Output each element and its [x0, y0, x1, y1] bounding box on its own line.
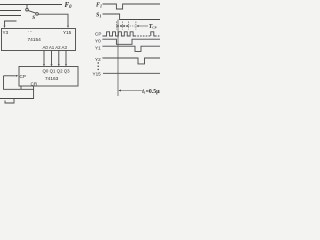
waveform Y1 — [102, 46, 160, 51]
svg-text:CR: CR — [31, 81, 38, 86]
waveform CP — [103, 32, 135, 36]
dashed marker t3 — [128, 22, 130, 30]
waveform Y0 — [102, 39, 160, 44]
svg-text:S: S — [32, 15, 35, 21]
switch S fixed contact — [26, 8, 29, 11]
delay annotation arrow — [119, 90, 142, 92]
time origin vertical line — [117, 20, 119, 97]
waveform F1 — [103, 4, 161, 9]
svg-text:CP: CP — [20, 74, 26, 79]
wire switch drop — [26, 5, 28, 9]
svg-text:Y0: Y0 — [95, 38, 101, 43]
svg-text:Y3: Y3 — [3, 30, 9, 35]
svg-text:Q0 Q1 Q2 Q3: Q0 Q1 Q2 Q3 — [43, 69, 71, 74]
svg-text:74163: 74163 — [45, 76, 59, 82]
dashed marker t2 — [122, 22, 124, 30]
svg-text:Y1: Y1 — [95, 45, 101, 50]
svg-text:F1: F1 — [96, 3, 102, 9]
svg-text:Y15: Y15 — [93, 71, 102, 76]
IC U2 74163 box — [19, 67, 78, 87]
wire stub lower — [0, 15, 21, 17]
waveform S1 — [103, 14, 161, 20]
svg-text:A0 A1 A2 A3: A0 A1 A2 A3 — [43, 45, 68, 50]
wire Q3 to A3 — [65, 51, 67, 65]
dashed marker t4 — [135, 22, 137, 30]
svg-text:Y2: Y2 — [95, 57, 101, 62]
dashed marker t1 — [115, 22, 117, 30]
wire F0 rail — [0, 4, 62, 6]
wire stub upper — [0, 10, 21, 12]
dashes between t3 t4 — [130, 25, 135, 27]
wire CP feed loop — [4, 76, 34, 90]
svg-text:S1: S1 — [96, 13, 101, 19]
svg-text:···: ··· — [28, 29, 33, 34]
svg-text:F0: F0 — [65, 1, 73, 10]
wire into decoder Y3 pin — [5, 21, 17, 26]
svg-text:TCP: TCP — [149, 24, 157, 30]
svg-text:Y15: Y15 — [63, 30, 72, 35]
dimension arrow pair 2 — [123, 25, 125, 27]
wire CR return — [0, 86, 34, 99]
wire CR return lower step — [5, 99, 14, 104]
dimension arrow pair 1 — [117, 25, 119, 27]
wire Q1 to A1 — [51, 51, 53, 65]
switch S pole contact — [36, 13, 39, 16]
vertical ellipsis — [98, 62, 99, 70]
svg-text:74154: 74154 — [28, 37, 42, 43]
leader line with left arrow to TCP label — [137, 25, 148, 27]
IC U1 74154 box — [2, 29, 76, 51]
svg-text:CP: CP — [95, 31, 101, 36]
svg-text:t1=0.5µs: t1=0.5µs — [142, 89, 160, 95]
wire box bottom junction — [20, 86, 22, 89]
waveform Y2 — [102, 58, 160, 64]
wire Q0 to A0 — [43, 51, 45, 65]
wire switch to decoder Y15 pin — [38, 14, 68, 25]
wire Q2 to A2 — [58, 51, 60, 65]
switch S arm — [28, 11, 36, 14]
waveform Y15 — [103, 72, 160, 74]
wire CP input — [4, 75, 16, 77]
